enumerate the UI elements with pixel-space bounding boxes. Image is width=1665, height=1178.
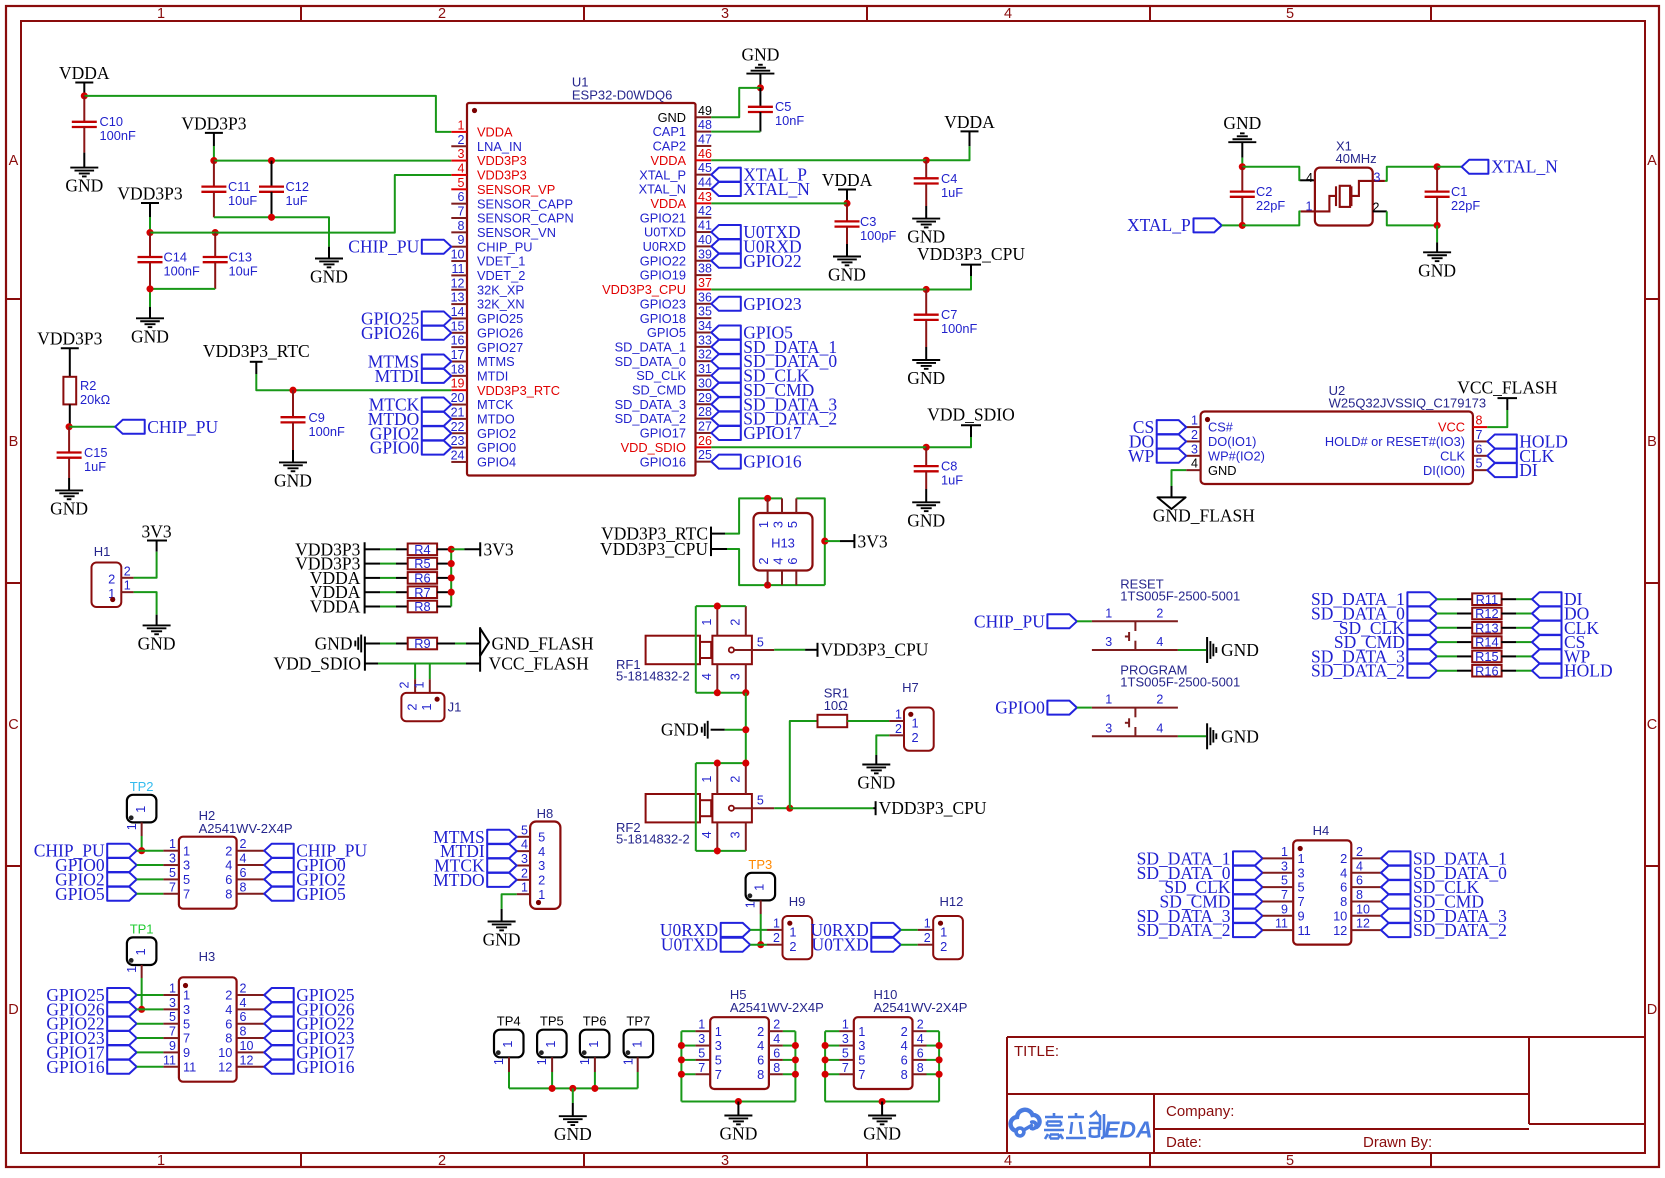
svg-text:5: 5	[1476, 457, 1483, 471]
wire R15 to WP	[1501, 655, 1516, 657]
U2 pin 5 DI(IO0)	[1473, 469, 1487, 471]
RF2 pin 2	[745, 763, 747, 794]
RF2 pin 4	[716, 822, 718, 851]
net label GPIO16 at U1 pin 25	[711, 455, 741, 469]
H10 pin 3	[839, 1045, 854, 1047]
capacitor C5	[759, 88, 761, 107]
svg-text:R7: R7	[414, 585, 430, 600]
node C8 top	[923, 444, 930, 451]
H1 pin 2	[121, 577, 133, 579]
svg-text:DI: DI	[1519, 460, 1538, 480]
H5 pin 7	[695, 1073, 710, 1075]
wire VDD3P3_CPU down	[970, 265, 972, 276]
switch PROGRAM pins 1-2	[1092, 707, 1178, 709]
svg-text:GND: GND	[310, 267, 348, 287]
svg-text:7: 7	[842, 1061, 849, 1075]
svg-text:C7: C7	[941, 307, 957, 322]
svg-text:U0TXD: U0TXD	[811, 935, 868, 955]
net label GPIO5 at U1 pin 34	[711, 326, 741, 340]
svg-text:C9: C9	[309, 410, 325, 425]
wire U1 pin37 to C7	[711, 288, 926, 290]
svg-text:1: 1	[940, 925, 947, 940]
svg-text:3: 3	[1374, 171, 1381, 185]
svg-text:4: 4	[225, 1002, 232, 1017]
node C14 bottom	[146, 285, 153, 292]
svg-text:C13: C13	[229, 250, 252, 265]
H5 pin 6	[769, 1059, 783, 1061]
svg-text:MTDO: MTDO	[477, 412, 515, 427]
resistor R9	[408, 638, 437, 650]
net label GPIO25 at H3 pin 1	[107, 988, 137, 1002]
node H5 ground	[735, 1098, 742, 1105]
RF1 top bracket wire	[696, 605, 746, 607]
svg-text:14: 14	[451, 305, 465, 319]
svg-text:22pF: 22pF	[1451, 198, 1480, 213]
svg-text:2: 2	[124, 564, 131, 578]
svg-text:2: 2	[108, 572, 115, 587]
svg-text:GPIO2: GPIO2	[477, 426, 516, 441]
svg-text:17: 17	[451, 348, 465, 362]
svg-text:36: 36	[698, 290, 712, 304]
ground under H10	[868, 1115, 896, 1117]
svg-text:SD_CLK: SD_CLK	[636, 368, 686, 383]
RF connector RF2 body	[646, 794, 700, 822]
test point TP5	[537, 1030, 567, 1058]
svg-text:100nF: 100nF	[100, 128, 136, 143]
TP ground rail	[509, 1087, 638, 1089]
H4 pin 5	[1263, 886, 1294, 888]
wire SD_DATA_2 to R16	[1437, 670, 1457, 672]
U1 pin 16 GPIO27	[451, 346, 467, 348]
svg-text:39: 39	[698, 247, 712, 261]
svg-text:10: 10	[218, 1045, 232, 1060]
svg-text:1: 1	[412, 681, 426, 688]
wire C14 C13 bottoms	[150, 289, 215, 307]
svg-text:2: 2	[240, 982, 247, 996]
U1 pin 19 VDD3P3_RTC	[451, 389, 467, 391]
capacitor C11	[213, 161, 215, 187]
net label SD_DATA_1 at R11	[1407, 592, 1437, 606]
wire VDD3P3_RTC to U1 pin19	[255, 362, 257, 374]
svg-text:A: A	[9, 153, 19, 169]
node C1 top	[1434, 163, 1441, 170]
wire SD_DATA_0 to R12	[1437, 613, 1457, 615]
power flag VDDA	[75, 82, 93, 84]
svg-text:4: 4	[1191, 457, 1198, 471]
net label GPIO5 at H2 pin 8	[264, 887, 294, 901]
svg-text:5: 5	[169, 1010, 176, 1024]
svg-text:2: 2	[924, 931, 931, 945]
RF connector RF1 body	[646, 636, 700, 665]
RF1 pin 2	[745, 606, 747, 636]
ground under C15	[55, 489, 83, 491]
svg-text:GND: GND	[857, 773, 895, 793]
svg-text:8: 8	[240, 880, 247, 894]
U1 pin 44 XTAL_N	[696, 188, 712, 190]
node VDDA junction	[81, 92, 88, 99]
power flag 3V3 at H1	[147, 540, 167, 542]
svg-text:2: 2	[398, 681, 412, 688]
switch RESET actuator	[1134, 621, 1136, 631]
svg-text:6: 6	[1340, 880, 1347, 895]
net label U0RXD at U1 pin 40	[711, 239, 741, 253]
svg-text:4: 4	[1156, 635, 1163, 649]
net label GPIO2 at H2 pin 5	[107, 872, 137, 886]
svg-text:GPIO0: GPIO0	[370, 438, 420, 458]
net label CHIP_PU at H2 pin 1	[107, 844, 137, 858]
wire C5 to U1 pin48	[711, 131, 760, 133]
svg-text:32: 32	[698, 348, 712, 362]
svg-text:C8: C8	[941, 459, 957, 474]
svg-text:MTDI: MTDI	[375, 366, 420, 386]
net label SD_DATA_1 at H4 pin 1	[1233, 851, 1263, 865]
svg-text:VDD3P3_CPU: VDD3P3_CPU	[600, 539, 708, 559]
power flag VDD3P3_CPU at RF2	[875, 801, 877, 815]
wire RF2 pin5 to VDD3P3_CPU	[774, 807, 790, 809]
net label MTDI at U1 pin 18	[422, 369, 452, 383]
wire VDD3P3 down to C14	[149, 203, 151, 217]
wire to R8	[365, 606, 380, 608]
svg-text:VDDA: VDDA	[822, 170, 873, 190]
svg-text:GPIO25: GPIO25	[477, 311, 523, 326]
net label SD_DATA_0 at H4 pin 4	[1381, 866, 1411, 880]
test point pin wire	[637, 1057, 639, 1072]
wire GPIO0 to switch	[1077, 707, 1092, 709]
node H10 ground	[879, 1098, 886, 1105]
test point TP3	[746, 873, 776, 901]
net label CLK at U2	[1487, 449, 1517, 463]
svg-text:1: 1	[773, 916, 780, 930]
U1 pin 1 VDDA	[451, 131, 467, 133]
svg-text:1: 1	[622, 1058, 636, 1065]
svg-text:2: 2	[405, 703, 420, 710]
wire to R6	[365, 577, 380, 579]
svg-text:VCC_FLASH: VCC_FLASH	[1457, 378, 1558, 398]
U1 pin 3 VDD3P3	[451, 160, 467, 162]
net label GPIO2 at U1 pin 22	[422, 426, 452, 440]
JLC EDA logo	[1011, 1110, 1040, 1136]
net label SD_DATA_0 at R12	[1407, 607, 1437, 621]
svg-text:VDD3P3_CPU: VDD3P3_CPU	[917, 244, 1025, 264]
svg-text:DI(IO0): DI(IO0)	[1423, 463, 1465, 478]
svg-text:9: 9	[183, 1045, 190, 1060]
wire to R4	[365, 548, 380, 550]
net label DI	[1532, 592, 1562, 606]
RF1 pin 3	[745, 664, 747, 693]
svg-text:5: 5	[757, 794, 764, 808]
net label U0TXD at H9	[721, 938, 751, 952]
svg-text:4: 4	[757, 1038, 764, 1053]
switch PROGRAM actuator	[1134, 708, 1136, 718]
H1 pin 1	[121, 591, 133, 593]
H3 pin 3	[163, 1008, 179, 1010]
connector H7	[904, 708, 934, 751]
net label GPIO23 at H3 pin 8	[264, 1031, 294, 1045]
wire C7 to ground	[925, 347, 927, 360]
svg-text:2: 2	[756, 557, 771, 564]
svg-text:CHIP_PU: CHIP_PU	[147, 417, 218, 437]
svg-text:3: 3	[1281, 859, 1288, 873]
svg-text:7: 7	[715, 1067, 722, 1082]
H4 pin 2	[1351, 857, 1381, 859]
svg-text:C3: C3	[860, 214, 876, 229]
svg-text:7: 7	[1298, 894, 1305, 909]
node H10 right	[936, 1042, 943, 1049]
test point TP1	[127, 937, 156, 965]
svg-text:VCC_FLASH: VCC_FLASH	[489, 654, 590, 674]
svg-text:Date:: Date:	[1166, 1134, 1202, 1151]
ground under C9	[279, 461, 307, 463]
U2 pin 3 WP#(IO2)	[1186, 455, 1200, 457]
resistor R4	[408, 544, 437, 556]
svg-text:33: 33	[698, 333, 712, 347]
H10 right bus	[938, 1031, 940, 1101]
svg-text:GPIO26: GPIO26	[361, 323, 420, 343]
H10 pin 6	[913, 1059, 927, 1061]
svg-text:100nF: 100nF	[309, 424, 345, 439]
ground above C2	[1228, 141, 1256, 143]
node H13 pin1	[764, 495, 771, 502]
svg-text:19: 19	[451, 377, 465, 391]
U1 pin 15 GPIO26	[451, 332, 467, 334]
svg-text:1: 1	[133, 948, 148, 955]
svg-text:8: 8	[757, 1067, 764, 1082]
wire CHIP_PU to switch	[1077, 620, 1092, 622]
net label SD_CLK at R13	[1407, 621, 1437, 635]
svg-text:GPIO18: GPIO18	[640, 311, 686, 326]
node H10 left	[822, 1071, 829, 1078]
svg-text:VDD3P3: VDD3P3	[181, 113, 246, 133]
ground under C3	[833, 256, 861, 258]
net label SD_CMD at U1 pin 30	[711, 383, 741, 397]
svg-text:3: 3	[1191, 442, 1198, 456]
node GND RF	[742, 726, 749, 733]
svg-text:GPIO4: GPIO4	[477, 455, 516, 470]
svg-text:1: 1	[157, 6, 165, 22]
wire VDDA down	[969, 131, 971, 146]
svg-text:GND: GND	[315, 634, 353, 654]
svg-text:46: 46	[698, 147, 712, 161]
svg-text:H8: H8	[537, 806, 554, 821]
node R output	[448, 589, 455, 596]
svg-text:1: 1	[157, 1153, 165, 1169]
power flag VDDA above C3	[838, 189, 856, 191]
resistor R14	[1472, 636, 1501, 648]
svg-text:5: 5	[521, 823, 528, 837]
wire VDD_SDIO to VCC_FLASH	[365, 663, 378, 665]
svg-text:Drawn By:: Drawn By:	[1363, 1134, 1432, 1151]
svg-text:VDD_SDIO: VDD_SDIO	[621, 440, 686, 455]
ground under C4	[912, 218, 940, 220]
svg-text:C10: C10	[100, 114, 123, 129]
net label SD_CMD at H4 pin 8	[1381, 894, 1411, 908]
svg-text:GPIO22: GPIO22	[743, 251, 801, 271]
svg-text:2: 2	[789, 939, 796, 954]
net label GPIO0	[1047, 701, 1077, 715]
svg-text:5: 5	[1281, 874, 1288, 888]
H3 pin 8	[237, 1037, 265, 1039]
ground under C14	[136, 317, 164, 319]
power flag VDD3P3 above C11	[205, 132, 223, 134]
svg-text:1: 1	[752, 884, 767, 891]
svg-text:38: 38	[698, 262, 712, 276]
net label GPIO16 at H3 pin 12	[264, 1060, 294, 1074]
net label MTDO at U1 pin 21	[422, 412, 452, 426]
node C2 bottom	[1239, 222, 1246, 229]
node C12 top	[268, 157, 275, 164]
svg-text:3: 3	[538, 858, 545, 873]
ground under C1	[1423, 251, 1451, 253]
svg-text:R14: R14	[1475, 635, 1498, 650]
U1 pin 25 GPIO16	[696, 461, 712, 463]
RF1 pin 1	[716, 606, 718, 636]
svg-text:3: 3	[715, 1038, 722, 1053]
svg-text:6: 6	[773, 1046, 780, 1060]
U1 pin 28 SD_DATA_2	[696, 418, 712, 420]
svg-text:5: 5	[1298, 880, 1305, 895]
svg-text:1: 1	[1105, 606, 1112, 620]
svg-text:SENSOR_VP: SENSOR_VP	[477, 182, 555, 197]
ground under C10	[70, 167, 98, 169]
resistor SR1	[818, 715, 848, 727]
wire H7 pin2 to ground	[876, 735, 889, 755]
svg-text:5: 5	[538, 829, 545, 844]
wire SR1 to H7	[847, 720, 889, 722]
U1 pin 23 GPIO0	[451, 447, 467, 449]
IC U2 W25Q32JVSSIQ	[1201, 412, 1473, 485]
wire C11 C12 bottoms to ground	[214, 217, 329, 246]
node H10 right	[936, 1071, 943, 1078]
svg-text:C: C	[1647, 717, 1657, 733]
svg-text:1uF: 1uF	[941, 473, 963, 488]
net label U0TXD at H12	[871, 938, 901, 952]
net label SD_CMD at R14	[1407, 635, 1437, 649]
wire VDDA to C3 node	[846, 190, 848, 204]
wire GPIO5 to H2	[137, 893, 164, 895]
svg-text:7: 7	[169, 1025, 176, 1039]
H10 pin 5	[839, 1059, 854, 1061]
node RF1 pin1 top	[714, 603, 721, 610]
svg-text:10: 10	[240, 1039, 254, 1053]
node H5 right	[792, 1056, 799, 1063]
U1 pin 9 CHIP_PU	[451, 246, 467, 248]
svg-text:GND_FLASH: GND_FLASH	[492, 634, 594, 654]
svg-text:C11: C11	[228, 179, 251, 194]
wire U0TXD to H9	[750, 944, 767, 946]
svg-text:2: 2	[1191, 428, 1198, 442]
svg-text:SENSOR_CAPN: SENSOR_CAPN	[477, 211, 574, 226]
wire SD_DATA_1 to R11	[1437, 598, 1457, 600]
svg-text:4: 4	[538, 844, 545, 859]
svg-text:6: 6	[240, 1010, 247, 1024]
svg-text:6: 6	[225, 872, 232, 887]
svg-text:3: 3	[1105, 721, 1112, 735]
wire VDDA to U1 pin1	[84, 96, 451, 132]
net label SD_DATA_2 at H4 pin 12	[1381, 923, 1411, 937]
node C14 top	[146, 229, 153, 236]
net label HOLD	[1532, 664, 1562, 678]
svg-text:13: 13	[451, 291, 465, 305]
node SR1 branch	[786, 805, 793, 812]
svg-text:XTAL_N: XTAL_N	[1491, 157, 1558, 177]
svg-text:2: 2	[917, 1018, 924, 1032]
node H5 right	[792, 1042, 799, 1049]
node C12 bottom	[268, 214, 275, 221]
U2 pin 2 DO(IO1)	[1186, 440, 1200, 442]
H5 right bus	[794, 1031, 796, 1101]
svg-text:R16: R16	[1475, 663, 1498, 678]
capacitor C10	[83, 96, 85, 122]
node C7 top	[923, 286, 930, 293]
node H5 left	[678, 1056, 685, 1063]
H10 pin 7	[839, 1073, 854, 1075]
H8 pin 5	[517, 836, 530, 838]
svg-text:1TS005F-2500-5001: 1TS005F-2500-5001	[1120, 675, 1240, 690]
svg-text:VDDA: VDDA	[477, 125, 513, 140]
wire C4 to ground	[925, 206, 927, 219]
H3 pin 11	[163, 1066, 179, 1068]
svg-text:CHIP_PU: CHIP_PU	[477, 239, 532, 254]
net label WP	[1532, 649, 1562, 663]
node R output	[448, 560, 455, 567]
svg-text:4: 4	[1356, 859, 1363, 873]
svg-text:6: 6	[1356, 874, 1363, 888]
U1 pin 21 MTDO	[451, 418, 467, 420]
capacitor C13	[214, 233, 216, 257]
RF1 bottom bracket wire	[696, 692, 746, 694]
svg-text:1: 1	[1298, 851, 1305, 866]
svg-text:2: 2	[438, 6, 446, 22]
svg-text:VDD3P3_RTC: VDD3P3_RTC	[203, 341, 310, 361]
svg-text:A: A	[1647, 153, 1657, 169]
svg-text:R9: R9	[414, 636, 430, 651]
svg-text:11: 11	[163, 1053, 176, 1067]
svg-text:2: 2	[940, 939, 947, 954]
svg-text:5: 5	[1286, 1153, 1294, 1169]
svg-text:4: 4	[1306, 171, 1313, 185]
svg-text:XTAL_P: XTAL_P	[639, 167, 686, 182]
U2 pin 4 GND	[1186, 469, 1200, 471]
svg-text:DO(IO1): DO(IO1)	[1208, 434, 1256, 449]
svg-text:6: 6	[785, 557, 800, 564]
svg-text:3: 3	[169, 996, 176, 1010]
svg-text:29: 29	[698, 391, 712, 405]
svg-text:100nF: 100nF	[164, 264, 200, 279]
net label GPIO5 at H2 pin 7	[107, 887, 137, 901]
svg-text:VDD3P3: VDD3P3	[477, 153, 527, 168]
svg-text:9: 9	[1281, 902, 1288, 916]
svg-text:GPIO16: GPIO16	[296, 1057, 355, 1077]
svg-text:5-1814832-2: 5-1814832-2	[616, 832, 690, 847]
wire R5 out	[437, 563, 451, 565]
svg-text:Company:: Company:	[1166, 1103, 1234, 1120]
svg-text:3: 3	[842, 1032, 849, 1046]
svg-text:32K_XP: 32K_XP	[477, 282, 524, 297]
wire ground to C2	[1241, 142, 1243, 158]
wire SD_CMD to R14	[1437, 641, 1457, 643]
svg-text:VCC: VCC	[1438, 420, 1465, 435]
switch PROGRAM pins 3-4	[1092, 735, 1178, 737]
svg-text:VDD3P3: VDD3P3	[117, 184, 182, 204]
svg-text:1uF: 1uF	[286, 193, 308, 208]
net label SD_CLK at U1 pin 31	[711, 369, 741, 383]
svg-text:4: 4	[700, 831, 714, 838]
svg-text:2: 2	[912, 730, 919, 745]
power flag VDD3P3 above C14	[141, 202, 159, 204]
net label CHIP_PU	[115, 420, 145, 434]
wire R12 to DO	[1501, 613, 1516, 615]
node H10 left	[822, 1056, 829, 1063]
